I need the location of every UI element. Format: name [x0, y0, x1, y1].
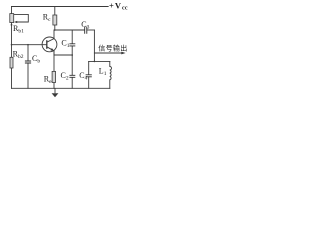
capacitor C2 plates: [69, 75, 75, 77]
capacitor C4 plates: [86, 75, 92, 77]
inductor L1: [110, 67, 112, 80]
ground: [52, 88, 59, 97]
svg-text:Rb1: Rb1: [13, 24, 24, 35]
wire Rb1 wiper loop: [14, 14, 28, 22]
wire top +Vcc rail: [12, 6, 109, 8]
svg-text:Rc: Rc: [43, 13, 51, 24]
node dot base-rail junction: [11, 44, 13, 46]
node dot Cb tee: [27, 44, 29, 46]
resistor Re: [52, 71, 55, 82]
node dot tank tap: [94, 61, 96, 63]
wire Cb branch: [27, 45, 29, 89]
capacitor Cb plates: [25, 61, 31, 63]
wire collector lead: [53, 30, 55, 39]
wire emitter horizontal: [54, 54, 72, 56]
capacitor C3 plates (series, output coupling): [85, 27, 87, 34]
svg-text:Re: Re: [44, 75, 52, 86]
resistor Rc: [53, 15, 57, 25]
wire base: [12, 44, 47, 46]
svg-text:L1: L1: [99, 67, 107, 78]
svg-text:Cb: Cb: [32, 54, 40, 65]
transistor Q1: [42, 37, 57, 55]
svg-text:C2: C2: [61, 71, 69, 82]
wire bottom rail: [12, 87, 110, 89]
wire collector horizontal to C3: [55, 29, 85, 31]
wire L1 branch top and bottom: [109, 61, 111, 88]
wire tank top: [89, 60, 110, 62]
wire C4 branch: [88, 61, 90, 88]
svg-text:Rb2: Rb2: [13, 50, 24, 61]
svg-text:+Vcc: +Vcc: [109, 1, 128, 12]
node dot collector: [54, 29, 56, 31]
resistor Rb2: [10, 57, 13, 68]
output arrow: [121, 52, 125, 55]
wire right vertical from C3 corner down to tank tap: [93, 30, 95, 61]
wire output line: [94, 52, 121, 54]
wire emitter column to Re and ground rail: [53, 51, 55, 88]
svg-text:信号输出: 信号输出: [98, 43, 127, 52]
resistor Rb1 (potentiometer): [10, 14, 17, 26]
capacitor C1 plates: [69, 44, 75, 46]
wire C1 C2 branch: [71, 30, 73, 88]
wire Rc to collector node: [54, 25, 56, 30]
node dot emitter tee: [71, 54, 73, 56]
wire left rail: [11, 7, 13, 89]
wire C3 right to corner: [87, 29, 94, 31]
svg-text:C3: C3: [81, 20, 89, 31]
svg-text:C4: C4: [79, 71, 87, 82]
svg-text:C1: C1: [61, 39, 69, 50]
wire Rc branch top: [54, 7, 56, 16]
